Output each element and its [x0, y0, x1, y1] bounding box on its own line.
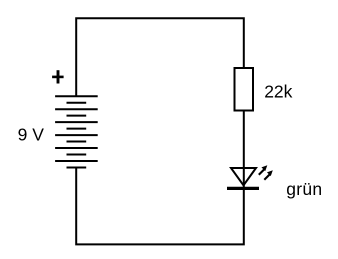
svg-text:22k: 22k: [264, 81, 292, 101]
svg-text:9 V: 9 V: [18, 124, 45, 144]
svg-text:grün: grün: [286, 179, 322, 199]
